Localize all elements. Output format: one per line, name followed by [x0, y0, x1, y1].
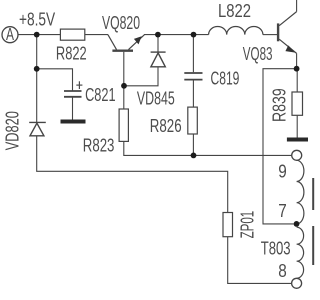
junction node +8.5V rail / R822: [34, 32, 40, 38]
svg-text:R822: R822: [56, 43, 87, 63]
wire VQ83 emitter node left and down to pin 7: [263, 69, 297, 224]
svg-text:C821: C821: [85, 85, 116, 105]
wire C819 to R826: [192, 80, 194, 107]
svg-text:VQ820: VQ820: [102, 13, 140, 33]
diode VD845: [151, 52, 166, 67]
svg-text:A: A: [6, 24, 14, 44]
wire R822 to VQ820 collector: [85, 34, 108, 36]
transformer T803 winding 7-8: [297, 227, 304, 278]
wire R826 bottom to node: [192, 134, 194, 155]
resistor R822: [60, 29, 84, 40]
svg-text:R823: R823: [83, 136, 115, 156]
node A terminal circle: [2, 27, 18, 43]
svg-text:T803: T803: [261, 239, 291, 259]
svg-text:VD845: VD845: [137, 89, 175, 109]
resistor R839: [292, 92, 303, 115]
wire L822 to VQ83 base: [263, 34, 277, 36]
wire R839 to ground: [296, 115, 298, 137]
transformer core mark lower: [312, 226, 314, 265]
svg-text:VQ83: VQ83: [243, 44, 273, 64]
terminal pin 8: [292, 278, 302, 288]
resistor R823: [119, 109, 128, 141]
wire C821 bottom lead: [72, 97, 74, 120]
wire VD845 top lead: [157, 35, 159, 53]
ground below R839: [287, 138, 308, 142]
capacitor C819 plates: [184, 73, 202, 80]
wire VQ83 collector up: [296, 0, 298, 12]
wire ZP01 bottom to pin 8: [228, 237, 292, 284]
transformer T803 winding 9-7: [297, 160, 304, 224]
junction node rail / C819: [191, 32, 197, 38]
wire VD845 bottom to VQ820 base node: [124, 67, 158, 86]
svg-text:L822: L822: [218, 1, 251, 21]
capacitor C821 plates: [64, 91, 82, 97]
transistor VQ820: [108, 35, 144, 51]
junction node VQ820 base / VD845 / R823: [121, 83, 127, 89]
diode VD820: [29, 122, 46, 135]
wire node +8.5V down to VD820: [36, 35, 38, 123]
wire VQ820 base down to R823: [123, 52, 125, 109]
junction node R826 / pin9 line: [191, 153, 197, 159]
svg-text:ZP01: ZP01: [237, 211, 257, 239]
svg-text:+8.5V: +8.5V: [19, 10, 55, 30]
junction node VD820 / C821: [34, 66, 40, 72]
wire tee to C821: [37, 69, 73, 91]
svg-text:VD820: VD820: [2, 111, 22, 150]
resistor R826: [188, 107, 198, 134]
wire C819 top lead: [192, 35, 194, 73]
wire VD820 anode down and right to ZP01: [37, 136, 228, 213]
wire VQ820 emitter to L822: [144, 34, 209, 36]
transistor VQ83: [278, 12, 297, 54]
svg-text:R839: R839: [269, 88, 289, 122]
junction node VQ83 emitter / R839: [294, 66, 300, 72]
wire A to R822: [18, 34, 60, 36]
svg-text:C819: C819: [211, 68, 240, 88]
junction node pin 7: [294, 221, 300, 227]
inductor L822: [209, 26, 263, 34]
ground below C821: [61, 120, 86, 124]
transformer core mark upper: [312, 178, 314, 210]
wire R823 bottom to pin 9 line: [124, 141, 292, 155]
junction node rail / VD845: [155, 32, 161, 38]
svg-text:8: 8: [278, 261, 287, 281]
svg-text:9: 9: [278, 162, 287, 182]
capacitor C821 polarity plus: [76, 81, 82, 89]
resistor ZP01: [223, 213, 233, 237]
svg-text:R826: R826: [150, 116, 182, 136]
wire VQ83 emitter down to node: [296, 53, 298, 68]
svg-text:7: 7: [278, 201, 287, 221]
wire VQ83 emitter node to R839: [296, 69, 298, 92]
terminal pin 9: [292, 150, 302, 160]
